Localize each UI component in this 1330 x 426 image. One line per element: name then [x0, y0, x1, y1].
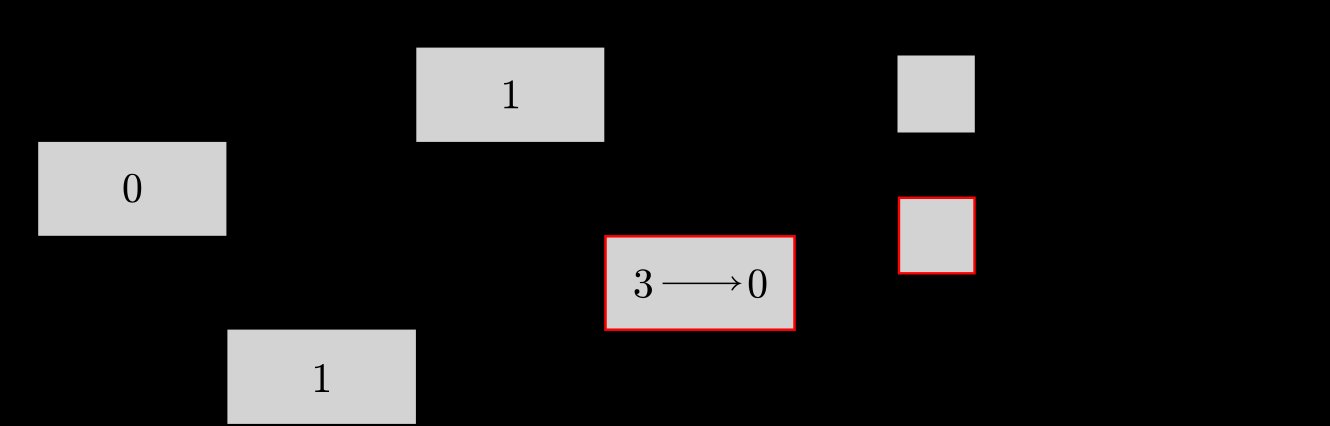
digit 0 in red box	[749, 269, 767, 298]
small red-outlined marker square bottom	[899, 198, 975, 273]
digit 3 in red box	[635, 269, 652, 298]
digit 1 in row1 box	[504, 80, 518, 108]
arrow head in red box	[732, 277, 739, 290]
digit 1 in row4 box	[315, 364, 329, 392]
cell row4 col2: gray box value 1	[227, 330, 416, 424]
cell row1 col3: gray box value 1	[416, 48, 604, 142]
digit 0 in row2 box	[124, 174, 142, 203]
cell row3 col4: red-outlined gray box "3 -> 0"	[606, 236, 795, 329]
arrow stem in red box	[663, 282, 738, 284]
cell row2 col1: gray box value 0	[38, 142, 226, 236]
small gray marker square top	[898, 56, 975, 133]
